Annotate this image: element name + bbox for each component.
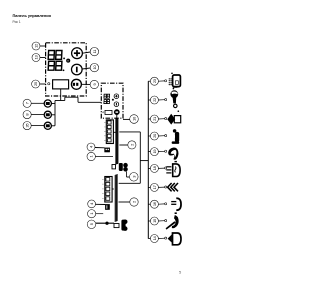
- svg-text:Рис 1: Рис 1: [13, 20, 21, 24]
- svg-text:Панель управления: Панель управления: [13, 13, 51, 18]
